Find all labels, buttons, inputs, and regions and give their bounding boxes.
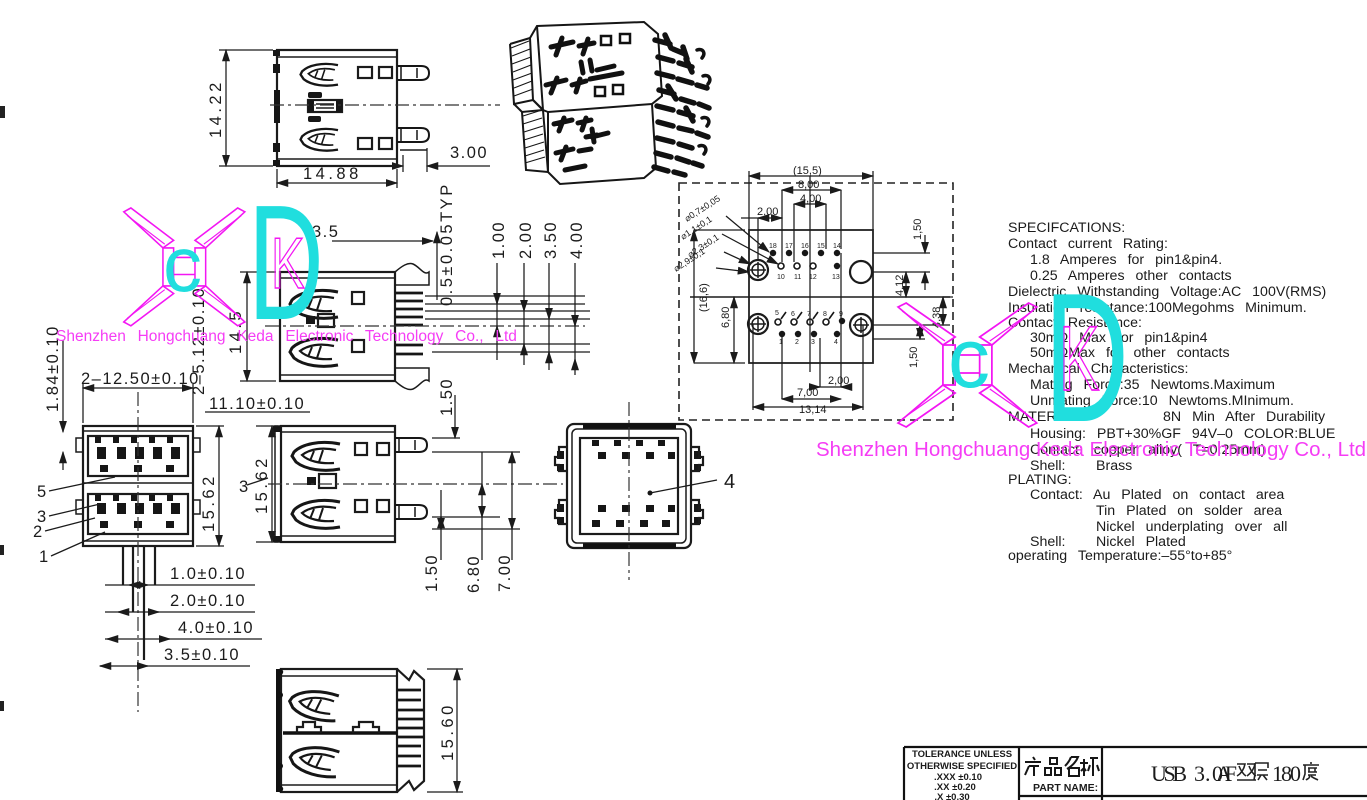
svg-text:K: K	[271, 224, 305, 304]
svg-text:3.5±0.10: 3.5±0.10	[164, 646, 240, 664]
svg-text:3.50: 3.50	[542, 221, 560, 259]
svg-text:(15,5): (15,5)	[793, 165, 822, 177]
svg-text:16: 16	[801, 243, 809, 250]
svg-text:0AF: 0AF	[1212, 761, 1237, 786]
svg-text:PART NAME:: PART NAME:	[1033, 782, 1098, 794]
svg-text:13: 13	[832, 274, 840, 281]
svg-text:1: 1	[39, 548, 50, 566]
svg-text:180: 180	[1272, 761, 1301, 786]
svg-text:6,80: 6,80	[720, 307, 732, 328]
svg-text:3.: 3.	[1194, 761, 1211, 786]
svg-text:2–12.50±0.10: 2–12.50±0.10	[81, 370, 200, 388]
svg-text:Contact current Rating:: Contact current Rating:	[1008, 236, 1168, 252]
svg-text:18: 18	[769, 243, 777, 250]
svg-text:(16,6): (16,6)	[698, 283, 710, 312]
svg-text:10: 10	[777, 274, 785, 281]
svg-text:7.00: 7.00	[496, 554, 514, 592]
svg-text:14: 14	[833, 243, 841, 250]
svg-text:Contact: Au Plated on contact: Contact: Au Plated on contact area	[1030, 487, 1284, 503]
svg-text:1,50: 1,50	[912, 219, 924, 240]
svg-text:OTHERWISE SPECIFIED: OTHERWISE SPECIFIED	[907, 761, 1017, 772]
svg-text:1.00: 1.00	[490, 221, 508, 259]
svg-text:Shenzhen Hongchuang Keda Elect: Shenzhen Hongchuang Keda Electronic Tech…	[816, 438, 1366, 461]
svg-text:2.0±0.10: 2.0±0.10	[170, 592, 246, 610]
svg-text:Tin Plated on solder area: Tin Plated on solder area	[1096, 503, 1282, 519]
svg-text:1,50: 1,50	[908, 347, 920, 368]
svg-text:4: 4	[834, 339, 838, 346]
svg-text:11: 11	[794, 274, 801, 281]
svg-text:4,00: 4,00	[800, 193, 821, 205]
svg-text:4.0±0.10: 4.0±0.10	[178, 619, 254, 637]
svg-text:TOLERANCE UNLESS: TOLERANCE UNLESS	[912, 749, 1012, 760]
svg-text:1.0±0.10: 1.0±0.10	[170, 565, 246, 583]
svg-text:4.00: 4.00	[568, 221, 586, 259]
svg-text:14.22: 14.22	[207, 79, 225, 138]
svg-text:PLATING:: PLATING:	[1008, 472, 1072, 488]
svg-text:Nickel underplating over all: Nickel underplating over all	[1096, 519, 1287, 535]
svg-text:c: c	[948, 311, 990, 405]
svg-text:4: 4	[724, 471, 735, 493]
svg-text:15.62: 15.62	[253, 455, 271, 514]
svg-text:1.50: 1.50	[438, 378, 456, 416]
svg-text:operating Temperature:–55°to+8: operating Temperature:–55°to+85°	[1008, 548, 1232, 564]
svg-text:2,00: 2,00	[757, 206, 778, 218]
svg-text:2: 2	[33, 523, 44, 541]
svg-text:0.5±0.05TYP: 0.5±0.05TYP	[438, 182, 456, 306]
svg-text:17: 17	[785, 243, 793, 250]
svg-text:5: 5	[37, 483, 48, 501]
svg-text:.X ±0.30: .X ±0.30	[934, 792, 969, 800]
svg-text:c: c	[163, 220, 202, 308]
svg-text:5: 5	[775, 310, 779, 317]
svg-text:13,14: 13,14	[799, 404, 827, 416]
svg-text:8,00: 8,00	[798, 179, 819, 191]
svg-text:11.10±0.10: 11.10±0.10	[209, 395, 305, 413]
svg-text:8: 8	[823, 311, 827, 318]
svg-text:15.62: 15.62	[200, 473, 218, 532]
svg-text:Shenzhen Hongchuang Keda Elect: Shenzhen Hongchuang Keda Electronic Tech…	[56, 328, 517, 345]
svg-text:15: 15	[817, 243, 825, 250]
svg-text:1.50: 1.50	[423, 554, 441, 592]
svg-text:3.00: 3.00	[450, 144, 488, 162]
svg-text:3: 3	[811, 339, 815, 346]
svg-text:7,00: 7,00	[797, 387, 818, 399]
svg-text:2.00: 2.00	[517, 221, 535, 259]
svg-text:3: 3	[239, 478, 250, 496]
svg-text:USB: USB	[1151, 761, 1187, 786]
svg-text:2: 2	[795, 339, 799, 346]
svg-text:K: K	[1059, 306, 1100, 410]
svg-text:6: 6	[791, 311, 795, 318]
svg-text:15.60: 15.60	[439, 702, 457, 761]
svg-text:8N Min After Durability: 8N Min After Durability	[1163, 409, 1326, 425]
svg-text:6.80: 6.80	[465, 555, 483, 593]
svg-text:4,12: 4,12	[894, 275, 906, 296]
svg-text:SPECIFCATIONS:: SPECIFCATIONS:	[1008, 220, 1125, 236]
svg-text:2,00: 2,00	[828, 375, 849, 387]
